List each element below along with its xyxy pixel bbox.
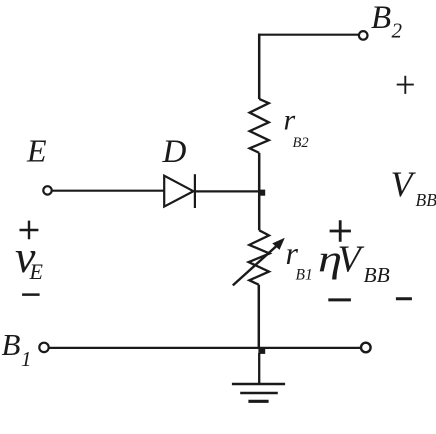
label minus of vE (22, 293, 39, 296)
label + of VBB (397, 76, 414, 94)
label + of etaVBB (330, 220, 351, 242)
label VBB (391, 164, 436, 210)
node junction bottom (258, 348, 265, 354)
label vE (15, 231, 44, 284)
resistor rB1 (variable) (249, 230, 270, 284)
label rB2 (284, 104, 309, 152)
wire rB2 to node (258, 153, 261, 190)
terminal E (43, 186, 51, 194)
node junction (emitter node) (258, 190, 265, 196)
label + of vE (20, 221, 39, 240)
label B1 (2, 327, 32, 371)
wire diode cathode to node (196, 190, 259, 192)
label minus of VBB (396, 297, 412, 300)
svg-text:BB: BB (416, 190, 436, 210)
label etaVBB (318, 238, 390, 287)
svg-text:E: E (26, 132, 47, 168)
svg-text:B1: B1 (296, 267, 313, 284)
svg-text:V: V (338, 238, 365, 280)
wire top horizontal to B2 (258, 34, 359, 36)
label B2 (371, 0, 403, 43)
arrow of variable resistor rB1 (233, 238, 285, 286)
terminal B2 (359, 31, 368, 40)
ground (232, 384, 285, 401)
diode D (164, 174, 195, 208)
label E (26, 132, 47, 168)
wire bottom horizontal B1 to right terminal (49, 347, 361, 349)
svg-text:BB: BB (364, 263, 390, 287)
svg-text:r: r (286, 235, 299, 271)
label rB1 (286, 235, 313, 284)
wire rB1 to bottom junction (258, 285, 261, 348)
svg-text:r: r (284, 104, 296, 137)
wire junction to ground (258, 353, 260, 383)
terminal bottom right (361, 343, 371, 353)
label D (162, 134, 187, 170)
resistor rB2 (250, 99, 269, 153)
wire vertical from top corner to rB2 (258, 34, 261, 99)
svg-text:B2: B2 (293, 135, 309, 151)
svg-text:B: B (2, 327, 21, 362)
svg-text:2: 2 (392, 19, 403, 43)
svg-text:1: 1 (21, 347, 32, 371)
svg-text:B: B (371, 0, 391, 36)
terminal B1 (39, 343, 48, 352)
svg-text:E: E (29, 259, 44, 284)
svg-text:D: D (162, 134, 187, 170)
label minus of etaVBB (328, 298, 351, 301)
wire node to rB1 (258, 195, 261, 230)
wire E to diode anode (52, 190, 164, 192)
